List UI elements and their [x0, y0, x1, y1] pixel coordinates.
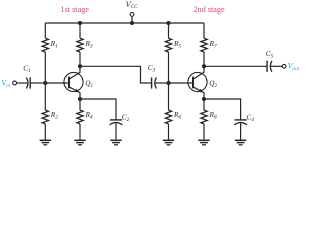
- label R4: [85, 110, 93, 121]
- label Vout: [288, 62, 300, 72]
- svg-text:C5: C5: [266, 49, 274, 60]
- transistor Q1: [64, 67, 83, 100]
- resistor R4: [77, 99, 83, 140]
- junction: Q1 base node: [43, 81, 47, 85]
- label Q2: [209, 79, 217, 90]
- svg-text:C2: C2: [122, 112, 130, 123]
- junction: R3 on rail: [78, 21, 82, 25]
- svg-text:R8: R8: [209, 110, 217, 121]
- svg-text:R1: R1: [50, 39, 58, 50]
- ground under R6: [163, 140, 174, 145]
- svg-text:R7: R7: [209, 39, 217, 50]
- svg-text:C3: C3: [148, 63, 156, 74]
- wire: Q2 collector to C5: [204, 65, 267, 67]
- wire: C4 to ground: [240, 123, 242, 140]
- svg-text:R2: R2: [50, 110, 58, 121]
- label R7: [209, 39, 217, 50]
- junction: Q2 collector node: [202, 64, 206, 68]
- wire: Q2 emitter to C4: [204, 99, 241, 120]
- wire: Vcc top rail: [45, 22, 204, 24]
- capacitor C1: [26, 77, 30, 88]
- Vout terminal: [282, 64, 286, 68]
- wire: base lead Q1: [45, 82, 69, 84]
- label R6: [173, 110, 181, 121]
- resistor R1: [42, 23, 48, 83]
- wire: base lead Q2: [169, 82, 194, 84]
- Vin terminal: [13, 81, 17, 85]
- svg-text:Vin: Vin: [1, 78, 10, 88]
- svg-text:VCC: VCC: [126, 0, 138, 10]
- label C1: [23, 64, 31, 75]
- transistor Q2: [188, 67, 207, 100]
- resistor R2: [42, 83, 48, 140]
- svg-text:R5: R5: [173, 39, 181, 50]
- label 2nd stage: [194, 5, 226, 14]
- resistor R6: [165, 83, 171, 140]
- wire: C1 to Q1 base node: [30, 82, 45, 84]
- junction: Vcc on rail: [130, 21, 134, 25]
- label C4: [246, 112, 254, 123]
- resistor R5: [165, 23, 171, 83]
- Vcc terminal: [130, 13, 134, 24]
- svg-text:Vout: Vout: [288, 62, 300, 72]
- wire: Vin to C1: [17, 82, 28, 84]
- svg-text:2nd stage: 2nd stage: [194, 5, 226, 14]
- wire: C2 to ground: [115, 123, 117, 140]
- capacitor C3: [152, 77, 157, 88]
- ground under C4: [235, 140, 246, 145]
- junction: Q2 emitter node: [202, 97, 206, 101]
- label Vin: [1, 78, 10, 88]
- label Vcc: [126, 0, 138, 10]
- svg-text:1st stage: 1st stage: [61, 5, 90, 14]
- svg-text:Q2: Q2: [209, 79, 217, 90]
- junction: R5 on rail: [166, 21, 170, 25]
- svg-text:Q1: Q1: [85, 79, 93, 90]
- junction: Q1 emitter node: [78, 97, 82, 101]
- ground under C2: [110, 140, 121, 145]
- label C5: [266, 49, 274, 60]
- wire: C5 to Vout: [271, 65, 283, 67]
- label C3: [148, 63, 156, 74]
- ground under R8: [198, 140, 209, 145]
- junction: Q2 base node: [166, 81, 170, 85]
- label R5: [173, 39, 181, 50]
- svg-text:R6: R6: [173, 110, 181, 121]
- ground under R2: [40, 140, 51, 145]
- junction: Q1 collector node: [78, 64, 82, 68]
- wire: C3 to Q2 base node: [155, 82, 169, 84]
- ground under R4: [74, 140, 85, 145]
- label R3: [85, 39, 93, 50]
- label R2: [50, 110, 58, 121]
- wire: Q1 collector to C3: [80, 66, 152, 83]
- svg-text:C4: C4: [246, 112, 254, 123]
- capacitor C2: [110, 120, 123, 125]
- resistor R3: [77, 23, 83, 66]
- resistor R8: [201, 99, 207, 140]
- capacitor C4: [234, 120, 247, 125]
- label R1: [50, 39, 58, 50]
- svg-text:R4: R4: [85, 110, 93, 121]
- label Q1: [85, 79, 93, 90]
- wire: Q1 emitter to C2: [80, 99, 116, 120]
- label R8: [209, 110, 217, 121]
- svg-text:R3: R3: [85, 39, 93, 50]
- capacitor C5: [267, 61, 272, 72]
- resistor R7: [201, 23, 207, 66]
- svg-text:C1: C1: [23, 64, 31, 75]
- label C2: [122, 112, 130, 123]
- label 1st stage: [61, 5, 90, 14]
